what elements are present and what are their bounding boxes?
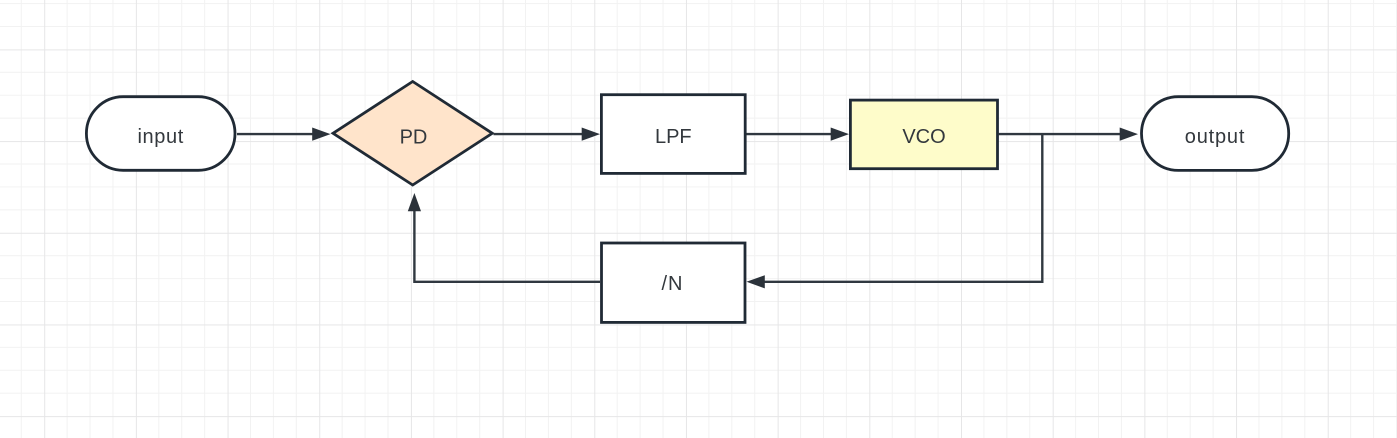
svg-text:input: input: [138, 126, 184, 148]
node /N (rectangle): [602, 243, 746, 322]
svg-text:PD: PD: [400, 127, 428, 149]
node LPF (rectangle): [601, 95, 745, 174]
node PD (diamond): [333, 82, 492, 186]
node output (stadium): [1142, 97, 1289, 171]
node input (stadium): [86, 97, 235, 171]
svg-text:output: output: [1185, 126, 1245, 148]
wire VCO to output: [999, 128, 1139, 141]
svg-text:LPF: LPF: [655, 126, 692, 148]
wire LPF to VCO: [747, 128, 850, 141]
wire PD to LPF: [494, 128, 601, 141]
wire /N to PD (left then up): [408, 193, 600, 282]
node VCO (rectangle, yellow): [850, 100, 997, 169]
wire input to PD: [237, 128, 331, 141]
wire feedback branch (junction on VCO-output wire, down then left into /N): [747, 134, 1043, 288]
svg-text:VCO: VCO: [902, 126, 945, 148]
svg-text:/N: /N: [662, 273, 684, 295]
